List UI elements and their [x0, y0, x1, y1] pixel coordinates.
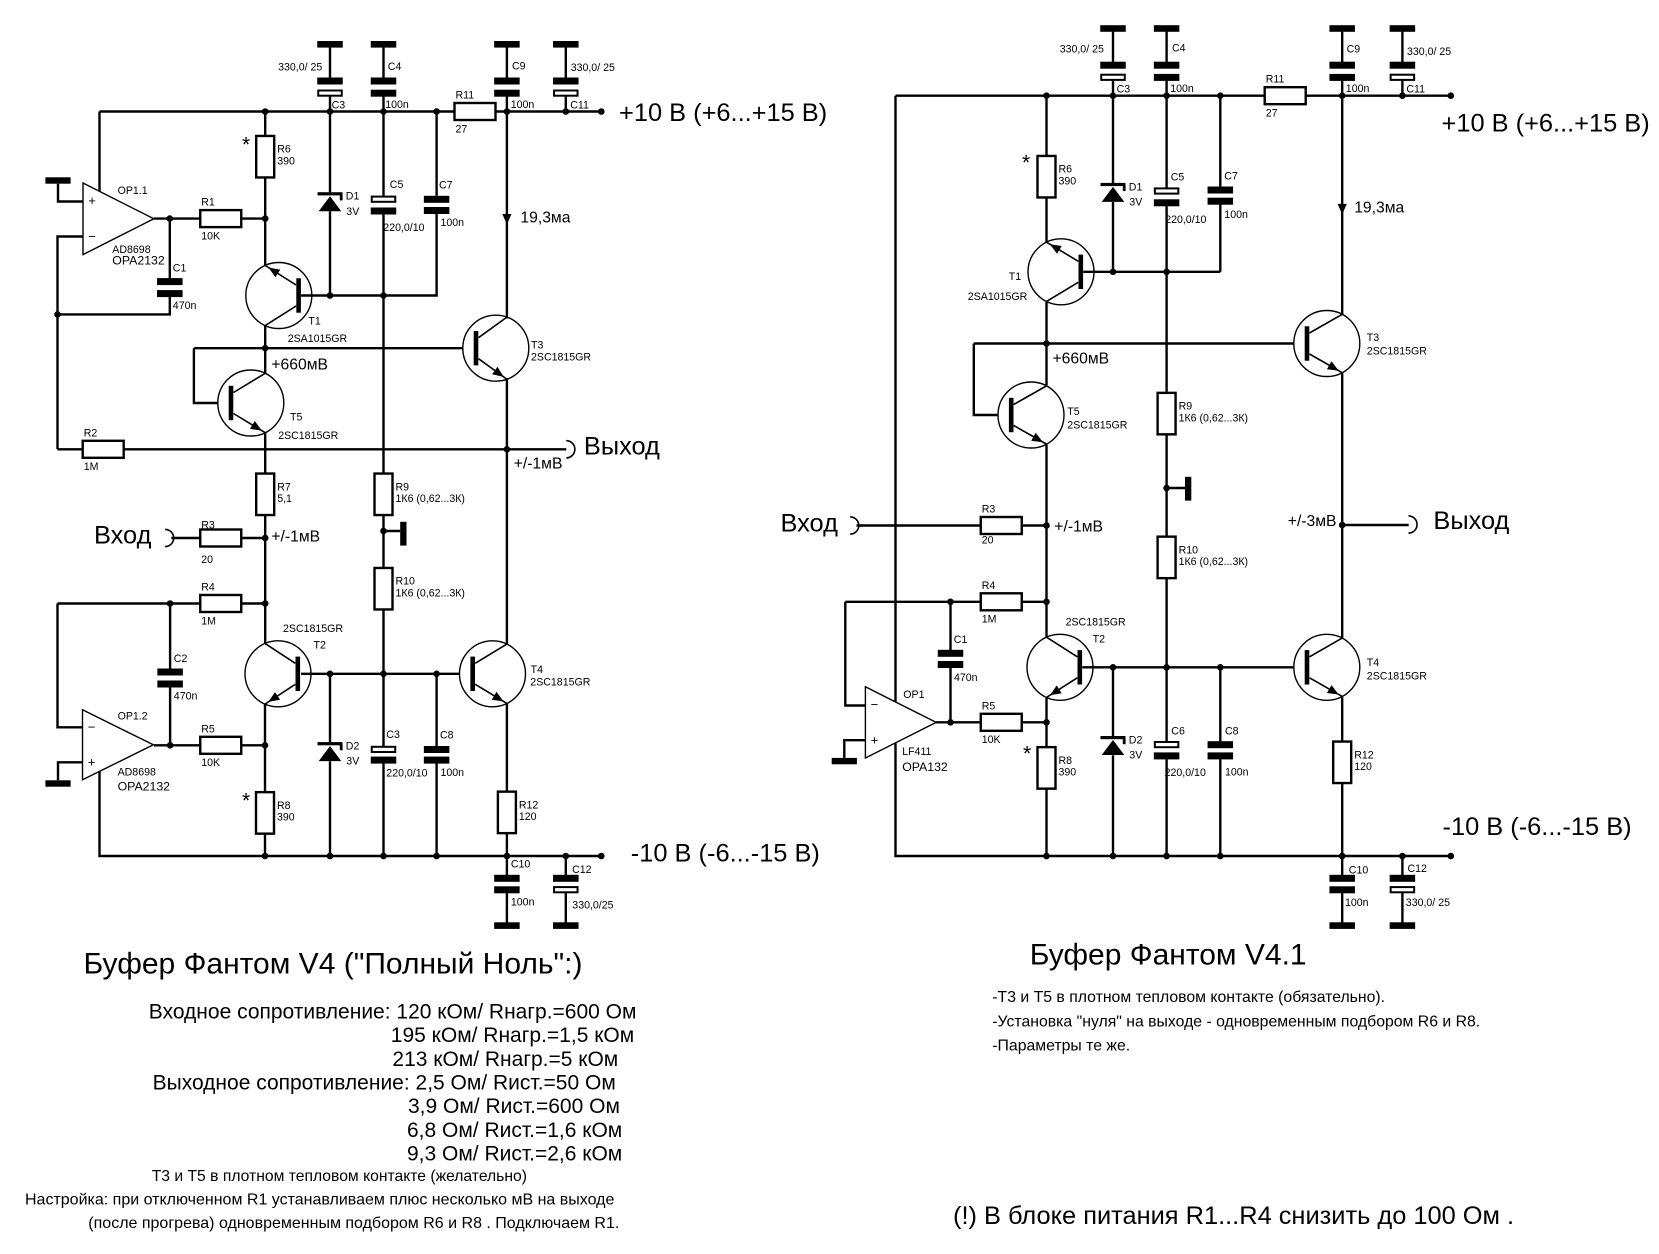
capacitor C3 electrolytic 330,0/25 [317, 41, 343, 112]
junction rail/C4 (V4.1) [1163, 92, 1170, 99]
wire OP1 V- pin (V4.1) [896, 743, 1047, 856]
junction rail/C7 [433, 108, 440, 115]
wire mid tap stub [384, 530, 401, 532]
junction lower base net/R10/C3 [380, 671, 387, 678]
svg-text:+: + [871, 732, 879, 747]
svg-text:10K: 10K [201, 230, 220, 242]
wire R4 net (V4.1) [845, 601, 980, 603]
svg-text:3V: 3V [1129, 197, 1143, 209]
wire R3 to input node (V4.1) [1023, 524, 1047, 526]
wire C1 to feedback line [58, 296, 170, 314]
junction rail/C11 (V4.1) [1399, 92, 1406, 99]
svg-text:C9: C9 [512, 61, 526, 73]
wire T5 emitter to input node (V4.1) [1045, 445, 1047, 526]
wire C1 to OP1 output (V4.1) [949, 667, 951, 722]
junction -10V rail/C12 (V4.1) [1399, 853, 1406, 860]
wire base net to R9 (V4.1) [1165, 272, 1167, 392]
ground at OP1 + input (V4.1) [832, 758, 857, 764]
capacitor C8 100n [424, 746, 450, 764]
wire OP1.2 + input [58, 762, 83, 780]
svg-text:19,3ма: 19,3ма [520, 209, 570, 226]
svg-text:100n: 100n [441, 217, 465, 229]
svg-text:OPA132: OPA132 [902, 760, 948, 774]
junction -10V rail/R8 (V4.1) [1043, 853, 1050, 860]
svg-text:C2: C2 [174, 653, 188, 665]
svg-text:195 кОм/ Rнагр.=1,5 кОм: 195 кОм/ Rнагр.=1,5 кОм [391, 1024, 634, 1047]
junction OP1.1 output/C1 [167, 215, 174, 222]
svg-text:100n: 100n [511, 99, 535, 111]
wire output to jack (V4.1) [1342, 524, 1409, 526]
wire output net [124, 448, 567, 450]
wire T2 base net (V4.1) [1082, 666, 1308, 668]
svg-text:+: + [88, 193, 96, 208]
junction base net/D1 (V4.1) [1110, 269, 1117, 276]
svg-text:C1: C1 [173, 262, 187, 274]
svg-text:100n: 100n [1170, 83, 1194, 95]
junction T1 collector node [262, 345, 269, 352]
svg-text:220,0/10: 220,0/10 [1165, 214, 1206, 226]
svg-text:2SC1815GR: 2SC1815GR [283, 623, 343, 635]
junction -10V rail/R12/C10 [504, 853, 511, 860]
svg-text:R9: R9 [396, 481, 410, 493]
wire +10V rail right segment [495, 110, 601, 112]
junction -10V rail/C6 (V4.1) [1163, 853, 1170, 860]
wire R9 to mid (V4.1) [1165, 435, 1167, 537]
junction -10V rail/D2 (V4.1) [1110, 853, 1117, 860]
svg-text:C3: C3 [332, 100, 346, 112]
capacitor C5 220,0/10 [371, 197, 397, 215]
svg-text:−: − [88, 720, 96, 735]
terminal -10V rail end (V4.1) [1448, 853, 1455, 860]
connector input jack (V4.1) [850, 517, 859, 534]
junction -10V rail/D2 [327, 853, 334, 860]
svg-text:3V: 3V [1129, 750, 1143, 762]
wire C5 top to rail [382, 112, 384, 196]
transistor T3 2SC1815GR (V4.1) [1294, 311, 1360, 377]
svg-text:*: * [1023, 743, 1031, 766]
svg-text:C8: C8 [440, 730, 454, 742]
junction input node [262, 535, 269, 542]
wire ground to OP1.1 + input [58, 184, 83, 202]
svg-text:Вход: Вход [781, 510, 839, 538]
svg-text:R3: R3 [982, 504, 996, 516]
junction base net/D1 [327, 292, 334, 299]
svg-text:Выход: Выход [1433, 507, 1509, 535]
svg-text:-Т3 и Т5 в плотном тепловом ко: -Т3 и Т5 в плотном тепловом контакте (об… [992, 989, 1385, 1006]
svg-text:C4: C4 [388, 61, 402, 73]
junction output/T3/T4 [504, 446, 511, 453]
svg-text:390: 390 [277, 812, 295, 824]
wire C5 to base net [382, 214, 384, 295]
svg-text:+10 В (+6...+15 В): +10 В (+6...+15 В) [619, 99, 827, 127]
junction rail/C11 [563, 108, 570, 115]
resistor R8 390 [256, 792, 295, 834]
svg-text:C7: C7 [439, 180, 453, 192]
svg-text:Выход: Выход [584, 432, 660, 460]
svg-text:R2: R2 [84, 427, 98, 439]
svg-text:330,0/ 25: 330,0/ 25 [1060, 44, 1104, 56]
wire T1 base net (V4.1) [1083, 271, 1220, 273]
junction base net/C5 (V4.1) [1163, 269, 1170, 276]
svg-text:+660мВ: +660мВ [271, 357, 328, 374]
zener diode D2 3V [318, 741, 361, 768]
ground at OP1.2 + input [45, 780, 70, 786]
wire loop to T5 base [194, 348, 230, 403]
svg-text:R11: R11 [456, 90, 475, 102]
terminal +10V rail end (V4.1) [1448, 92, 1455, 99]
svg-text:Настройка: при отключенном R1: Настройка: при отключенном R1 устанавлив… [25, 1192, 614, 1209]
junction R9/R10 mid tap (V4.1) [1163, 485, 1170, 492]
wire R4 to input vertical [241, 602, 265, 604]
wire loop to T5 base (V4.1) [974, 344, 1012, 416]
svg-text:213 кОм/ Rнагр.=5 кОм: 213 кОм/ Rнагр.=5 кОм [392, 1048, 618, 1071]
svg-text:R5: R5 [982, 700, 996, 712]
wire rail to R6 [264, 112, 266, 137]
svg-text:100n: 100n [1345, 897, 1369, 909]
svg-text:R12: R12 [519, 799, 539, 811]
svg-text:T4: T4 [1367, 657, 1379, 669]
svg-text:+/-1мВ: +/-1мВ [514, 456, 563, 473]
wire D1 top to rail [329, 112, 331, 193]
capacitor C1 470n (V4.1) [938, 650, 964, 668]
resistor R12 120 [498, 792, 539, 834]
svg-text:D2: D2 [1129, 734, 1143, 746]
junction -10V rail/C8 [433, 853, 440, 860]
svg-text:2SC1815GR: 2SC1815GR [531, 351, 591, 363]
svg-text:(после прогрева) одновременным: (после прогрева) одновременным подбором … [88, 1215, 619, 1232]
wire T4 emitter to R12 (V4.1) [1341, 697, 1343, 741]
svg-text:1К6 (0,62...3К): 1К6 (0,62...3К) [396, 493, 465, 505]
connector output jack [566, 441, 575, 458]
svg-text:R10: R10 [1179, 544, 1199, 556]
svg-text:+/-1мВ: +/-1мВ [271, 528, 320, 545]
wire T1 collector [264, 326, 266, 349]
svg-text:2SC1815GR: 2SC1815GR [278, 430, 338, 442]
svg-text:R7: R7 [277, 481, 291, 493]
wire T2 emitter [264, 705, 266, 746]
svg-text:100n: 100n [1224, 209, 1248, 221]
transistor T2 2SC1815GR (V4.1) [1027, 634, 1093, 700]
junction R5/R8/T2 emitter (V4.1) [1043, 719, 1050, 726]
svg-text:19,3ма: 19,3ма [1354, 200, 1404, 217]
wire collector net to T3 base [194, 347, 475, 349]
wire OP1.2 output to R5 [154, 744, 200, 746]
wire T2 base net [301, 673, 474, 675]
svg-text:-10 В (-6...-15 В): -10 В (-6...-15 В) [631, 839, 820, 867]
resistor R7 5,1 [256, 474, 292, 516]
capacitor C10 100n (V4.1) [1329, 856, 1355, 929]
terminal -10V rail end [598, 853, 605, 860]
svg-text:Входное сопротивление: 120 кОм: Входное сопротивление: 120 кОм/ Rнагр.=6… [149, 1001, 637, 1024]
svg-text:330,0/ 25: 330,0/ 25 [1407, 46, 1451, 58]
svg-text:330,0/ 25: 330,0/ 25 [571, 62, 615, 74]
svg-text:100n: 100n [1225, 766, 1249, 778]
svg-text:6,8 Ом/ Rист.=1,6 кОм: 6,8 Ом/ Rист.=1,6 кОм [407, 1119, 622, 1142]
svg-text:100n: 100n [441, 767, 465, 779]
wire C1 branch (V4.1) [949, 602, 951, 651]
svg-text:390: 390 [1059, 767, 1077, 779]
wire T3 emitter to output (V4.1) [1341, 373, 1343, 525]
capacitor C1 470n [157, 278, 183, 297]
svg-text:R3: R3 [201, 520, 215, 532]
wire C3 to -10V rail [382, 763, 384, 856]
transistor T4 2SC1815GR (V4.1) [1294, 634, 1360, 700]
svg-text:C8: C8 [1225, 725, 1239, 737]
junction T1 collector node (V4.1) [1043, 340, 1050, 347]
svg-text:470n: 470n [954, 672, 978, 684]
svg-text:C4: C4 [1172, 43, 1186, 55]
wire T5 collector (V4.1) [1045, 344, 1047, 386]
junction -10V rail/C12 [563, 853, 570, 860]
resistor R9 1K6 (V4.1) [1158, 393, 1248, 435]
svg-text:OP1.1: OP1.1 [118, 185, 148, 197]
wire input node to T2 collector (V4.1) [1045, 526, 1047, 602]
wire C7 to base net corner (V4.1) [1219, 205, 1221, 272]
junction rail/C3 (V4.1) [1110, 92, 1117, 99]
resistor R4 1M (V4.1) [981, 580, 1022, 626]
svg-text:-10 В (-6...-15 В): -10 В (-6...-15 В) [1443, 813, 1632, 841]
svg-text:100n: 100n [511, 897, 535, 909]
capacitor C3 electrolytic 220,0/10 (lower) [371, 747, 397, 764]
wire T1 base net [301, 214, 437, 296]
svg-text:2SA1015GR: 2SA1015GR [288, 333, 348, 345]
wire T3 collector to rail (V4.1) [1341, 96, 1343, 315]
svg-text:1M: 1M [982, 614, 997, 626]
resistor R3 20 (V4.1) [981, 504, 1022, 547]
junction rail/C4 [380, 108, 387, 115]
op-amp OP1.1 AD8698/OPA2132 [83, 183, 165, 268]
svg-text:20: 20 [982, 534, 994, 546]
svg-text:470n: 470n [173, 300, 197, 312]
svg-text:Вход: Вход [94, 521, 152, 549]
junction R4/input vertical (V4.1) [1043, 599, 1050, 606]
junction rail/C9 [504, 108, 511, 115]
capacitor C11 electrolytic 330,0/25 (V4.1) [1390, 25, 1416, 96]
svg-text:2SC1815GR: 2SC1815GR [1066, 616, 1126, 628]
wire R6 to T1 emitter (V4.1) [1045, 198, 1047, 245]
wire C7 top to rail [435, 112, 437, 196]
svg-text:T5: T5 [290, 411, 302, 423]
svg-text:+/-1мВ: +/-1мВ [1054, 518, 1103, 535]
wire R12 to -10V rail [506, 833, 508, 856]
junction OP1 output/C1 (V4.1) [947, 719, 954, 726]
wire C5 to base net (V4.1) [1165, 206, 1167, 272]
wire OP1 + input (V4.1) [844, 740, 865, 758]
wire C8 to -10V rail (V4.1) [1219, 759, 1221, 856]
junction rail/C9 (V4.1) [1339, 92, 1346, 99]
svg-text:R4: R4 [201, 582, 215, 594]
resistor R6 390 [256, 136, 295, 178]
svg-text:1К6 (0,62...3К): 1К6 (0,62...3К) [1179, 412, 1248, 424]
junction rail/C7 (V4.1) [1217, 92, 1224, 99]
svg-text:OP1: OP1 [903, 689, 924, 701]
resistor R8 390 (V4.1) [1038, 747, 1077, 789]
junction lower base net/D2 [327, 671, 334, 678]
wire R12 to -10V rail (V4.1) [1341, 783, 1343, 856]
resistor R12 120 (V4.1) [1333, 742, 1374, 784]
svg-text:R9: R9 [1179, 401, 1193, 413]
svg-text:T3: T3 [1367, 332, 1379, 344]
wire R4 net to feedback corner [58, 602, 201, 604]
op-amp OP1.2 AD8698/OPA2132 [83, 710, 171, 794]
capacitor C5 220,0/10 (V4.1) [1154, 188, 1180, 206]
svg-text:C3: C3 [386, 729, 400, 741]
svg-text:3,9 Ом/ Rист.=600 Ом: 3,9 Ом/ Rист.=600 Ом [408, 1095, 620, 1118]
svg-text:100n: 100n [385, 99, 409, 111]
wire input node down to R4 node [264, 538, 266, 604]
svg-text:Т3 и Т5 в плотном тепловом кон: Т3 и Т5 в плотном тепловом контакте (жел… [152, 1168, 527, 1185]
junction rail/R6 [262, 108, 269, 115]
wire lower base net to C8 [435, 674, 437, 747]
wire C8 top (V4.1) [1219, 667, 1221, 742]
wire R6 to R1/T1 node [264, 177, 266, 218]
junction base net/C5 [380, 292, 387, 299]
wire D1 to base net [329, 211, 331, 295]
zener diode D1 3V (V4.1) [1101, 181, 1144, 208]
capacitor C9 100n [494, 41, 520, 112]
wire R3 to input node [241, 537, 265, 539]
wire OP1 output to R5 (V4.1) [936, 721, 980, 723]
svg-text:2SC1815GR: 2SC1815GR [1067, 419, 1127, 431]
wire -10V rail (V4.1) [1047, 855, 1451, 857]
junction output node (V4.1) [1339, 522, 1346, 529]
svg-text:100n: 100n [1346, 83, 1370, 95]
resistor R6 390 (V4.1) [1038, 156, 1077, 198]
svg-text:2SC1815GR: 2SC1815GR [1367, 671, 1427, 683]
transistor T1 2SA1015GR [246, 263, 312, 329]
connector input jack [165, 529, 174, 546]
wire +10V rail left segment [100, 110, 455, 112]
zener diode D1 3V [318, 191, 361, 218]
svg-text:120: 120 [1354, 761, 1372, 773]
capacitor C6 220,0/10 (V4.1) [1154, 742, 1180, 759]
test point bar at R9/R10 midpoint [400, 522, 406, 546]
junction R1/R6/T1 emitter [262, 215, 269, 222]
junction lower base net/C8 (V4.1) [1217, 664, 1224, 671]
junction lower base net/D2 (V4.1) [1110, 664, 1117, 671]
junction R5/R8/T2 emitter [262, 742, 269, 749]
capacitor C12 electrolytic 330,0/25 (V4.1) [1390, 856, 1416, 929]
wire C5 chain (V4.1) [1165, 96, 1167, 189]
svg-text:10K: 10K [201, 757, 220, 769]
capacitor C7 100n (V4.1) [1208, 187, 1234, 205]
wire OP1.1 output to R1 [154, 217, 200, 219]
svg-text:T4: T4 [531, 664, 543, 676]
svg-text:+/-3мВ: +/-3мВ [1288, 513, 1337, 530]
svg-text:C10: C10 [511, 858, 531, 870]
junction R4/C1 (V4.1) [947, 599, 954, 606]
wire T2 collector [264, 604, 266, 645]
svg-text:D1: D1 [346, 191, 360, 203]
junction rail/R6 (V4.1) [1043, 92, 1050, 99]
svg-text:2SC1815GR: 2SC1815GR [1367, 346, 1427, 358]
svg-text:330,0/ 25: 330,0/ 25 [1406, 897, 1450, 909]
svg-text:C11: C11 [570, 100, 589, 112]
wire R10 to lower base net (V4.1) [1165, 578, 1167, 667]
transistor T3 2SC1815GR [463, 315, 529, 381]
wire T5 collector to node [264, 348, 266, 373]
wire T4 collector to output [506, 449, 508, 644]
junction input node (V4.1) [1043, 522, 1050, 529]
wire V+ supply down-left (V4.1) [894, 96, 896, 702]
svg-text:3V: 3V [346, 756, 360, 768]
svg-text:+660мВ: +660мВ [1053, 351, 1110, 368]
svg-text:5,1: 5,1 [277, 493, 292, 505]
svg-text:C9: C9 [1347, 44, 1361, 56]
junction R4/C2 [167, 600, 174, 607]
wire R5 to T2 emitter node (V4.1) [1023, 721, 1047, 723]
wire op-amp OP1.1 V+ pin [98, 112, 100, 192]
transistor T5 2SC1815GR [218, 370, 284, 436]
svg-text:T3: T3 [531, 339, 543, 351]
resistor R11 27 (V4.1) [1265, 74, 1306, 120]
resistor R3 20 [200, 520, 241, 566]
capacitor C12 electrolytic 330,0/25 [553, 856, 579, 929]
junction -10V rail/R8 [262, 853, 269, 860]
svg-text:(!) В блоке питания R1...R4 сн: (!) В блоке питания R1...R4 снизить до 1… [953, 1202, 1514, 1230]
wire C8 to -10V rail [435, 763, 437, 856]
capacitor C4 100n (V4.1) [1154, 25, 1180, 96]
svg-text:−: − [871, 697, 879, 712]
svg-text:T2: T2 [1093, 633, 1105, 645]
connector output jack (V4.1) [1409, 516, 1418, 533]
capacitor C10 100n [494, 856, 520, 929]
svg-text:LF411: LF411 [902, 746, 931, 758]
resistor R10 1K6 [375, 568, 465, 610]
wire T3 collector to rail [506, 112, 508, 319]
junction rail/C3 [327, 108, 334, 115]
svg-text:T2: T2 [314, 640, 326, 652]
wire R8 to -10V rail [264, 834, 266, 856]
svg-text:220,0/10: 220,0/10 [1165, 767, 1206, 779]
wire D1 to base net (V4.1) [1112, 202, 1114, 272]
junction lower base net/C8 [433, 671, 440, 678]
svg-text:330,0/ 25: 330,0/ 25 [278, 62, 322, 74]
wire D2 to lower base net [329, 674, 331, 743]
junction R9/R10 mid tap [380, 528, 387, 535]
resistor R1 10K [200, 197, 241, 243]
svg-text:*: * [242, 790, 250, 813]
wire T1 emitter [264, 219, 266, 266]
wire D2 to -10V rail [329, 761, 331, 856]
wire T2 emitter node to R8 [264, 745, 266, 792]
junction OP1.2 output/C2 [167, 742, 174, 749]
svg-text:-Установка "нуля" на выходе -: -Установка "нуля" на выходе - одновремен… [992, 1014, 1480, 1031]
svg-text:R6: R6 [277, 144, 291, 156]
svg-text:330,0/25: 330,0/25 [572, 900, 613, 912]
svg-text:3V: 3V [346, 206, 360, 218]
current arrow 19,3mA [502, 214, 511, 225]
wire R4 to T2 collector node (V4.1) [1023, 601, 1047, 603]
junction -10V rail/C8 (V4.1) [1217, 853, 1224, 860]
svg-text:R4: R4 [982, 580, 996, 592]
wire R9 to mid tap [382, 515, 384, 568]
svg-text:1К6 (0,62...3К): 1К6 (0,62...3К) [396, 588, 465, 600]
svg-text:C6: C6 [1171, 725, 1185, 737]
wire T2 collector (V4.1) [1045, 602, 1047, 638]
transistor T4 2SC1815GR [460, 641, 526, 707]
junction R4/input vertical [262, 600, 269, 607]
wire R8 to -10V rail (V4.1) [1045, 788, 1047, 856]
op-amp OP1 LF411/OPA132 [865, 687, 948, 774]
transistor T5 2SC1815GR (V4.1) [998, 382, 1064, 448]
svg-text:390: 390 [1059, 176, 1077, 188]
svg-text:T1: T1 [1009, 271, 1021, 283]
svg-text:20: 20 [201, 554, 213, 566]
capacitor C4 100n [371, 41, 397, 112]
junction -10V rail/R12/C10 (V4.1) [1339, 853, 1346, 860]
wire R1 to T1 emitter node [241, 217, 265, 219]
